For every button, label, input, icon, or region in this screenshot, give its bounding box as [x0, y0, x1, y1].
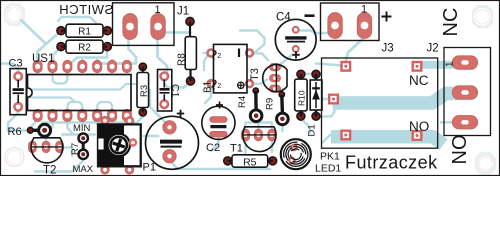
- capacitor C5 pads: [163, 121, 176, 163]
- wire J3 pad2 down to relay NC pad: [346, 37, 365, 60]
- svg-text:T1: T1: [230, 143, 243, 155]
- svg-text:R8: R8: [177, 53, 188, 66]
- svg-text:MIN: MIN: [73, 123, 91, 134]
- wire stubs US1 top pins: [82, 60, 112, 65]
- wire J2 pin3 link: [441, 121, 453, 124]
- wire inside US1 horizontal: [30, 84, 136, 90]
- wire into relay NC-side pad: [316, 64, 343, 66]
- capacitor C5 (big electrolytic): [146, 110, 199, 170]
- capacitor C3: [9, 58, 27, 115]
- wire B1 left stubs: [204, 53, 212, 84]
- wire C2 bottom: [211, 137, 218, 152]
- wire thick trace relay coil to J2 pin2: [333, 94, 459, 104]
- svg-text:R4: R4: [237, 96, 248, 108]
- transistor T1: [230, 127, 276, 155]
- relay PK1 pads: [329, 62, 421, 140]
- wire J1 pad2 down: [158, 38, 168, 78]
- wire B1 to below: [205, 86, 211, 104]
- wire R8 bottom to C1: [164, 81, 190, 88]
- svg-text:C1: C1: [169, 84, 181, 98]
- wire US1 bottom pin3-4 loop: [67, 102, 82, 117]
- svg-text:J3: J3: [382, 43, 394, 55]
- wire US1 pin to R7 area: [67, 125, 73, 135]
- wire B1 right to T3: [250, 53, 268, 84]
- connector J2: [427, 43, 491, 136]
- svg-text:R9: R9: [265, 98, 276, 110]
- wire R3/C1 area to C5 top pad: [150, 90, 168, 125]
- svg-text:Futrzaczek: Futrzaczek: [345, 152, 438, 172]
- connector J2 pads: [452, 56, 478, 129]
- svg-text:PK1: PK1: [320, 151, 340, 163]
- wire T3 stubs: [275, 67, 284, 89]
- wire US1 pin to R6: [30, 119, 37, 128]
- LED1: [279, 138, 341, 175]
- svg-text:R1: R1: [78, 26, 91, 37]
- svg-text:SWITCH: SWITCH: [59, 2, 114, 17]
- svg-text:C4: C4: [276, 12, 291, 24]
- wire inside US1 horizontal 2: [30, 98, 75, 103]
- wire D1 to relay coil: [317, 103, 335, 116]
- capacitor C1 pads: [160, 72, 169, 109]
- relay PK1 outline: [322, 58, 438, 148]
- transistor T2: [31, 138, 63, 177]
- mounting hole top-right: [473, 6, 492, 27]
- IC US1: [28, 53, 132, 111]
- wire R10 to LED area: [301, 119, 310, 134]
- potentiometer P1: [98, 124, 156, 174]
- svg-text:D1: D1: [307, 124, 318, 136]
- svg-text:1: 1: [154, 4, 160, 16]
- wire stubs US1 bottom pins: [53, 118, 113, 128]
- wire R9 bottom down: [281, 125, 283, 131]
- bridge rectifier B1: [203, 44, 248, 93]
- bridge B1 pads: [207, 49, 254, 88]
- wire R2 to US1 pin2: [53, 47, 61, 65]
- svg-text:R6: R6: [8, 126, 22, 138]
- wire under SWITCH text: [58, 17, 96, 23]
- wire US1 pin2-pin3 loop: [53, 64, 68, 84]
- resistor R9: [265, 92, 289, 125]
- wire P1 to C5: [144, 135, 158, 138]
- capacitor C2 pads: [210, 117, 227, 137]
- svg-text:T3: T3: [249, 68, 261, 81]
- wire stub into relay coil pad: [322, 98, 330, 101]
- svg-text:R7: R7: [70, 143, 81, 155]
- wire to B1 top right pad: [240, 31, 265, 53]
- wire R2 right to US1 pin3: [70, 47, 107, 64]
- svg-text:MAX: MAX: [73, 164, 94, 175]
- wire J1 to R8 area: [166, 31, 190, 34]
- wire along bottom to R7: [35, 161, 83, 172]
- wire J1 pad1 down: [129, 38, 137, 63]
- trimmer R7 with MIN/MAX: [70, 123, 94, 175]
- svg-text:1: 1: [445, 61, 456, 67]
- svg-text:R10: R10: [297, 90, 307, 106]
- mounting hole bottom-right: [476, 153, 495, 174]
- wire above MIN: [62, 133, 95, 135]
- wire from hole to R1/US1 pin1: [21, 20, 61, 64]
- svg-text:C2: C2: [206, 142, 220, 154]
- svg-text:2: 2: [217, 83, 221, 90]
- wire C4 bottom to T3: [278, 55, 292, 66]
- diode D1: [307, 70, 323, 136]
- wire US1 bottom pin5-6 loop: [97, 102, 112, 117]
- capacitor C1: [158, 70, 182, 112]
- board outline: [1, 1, 500, 176]
- transistor T3: [249, 65, 287, 92]
- svg-text:T2: T2: [43, 165, 56, 177]
- svg-text:2: 2: [217, 53, 221, 60]
- svg-text:J2: J2: [427, 43, 439, 55]
- transistor T2 pads: [29, 141, 64, 152]
- svg-text:US1: US1: [32, 53, 54, 65]
- connector J1 pads: [123, 14, 166, 40]
- resistor R8: [177, 17, 197, 85]
- svg-text:R2: R2: [78, 42, 91, 53]
- wire T1 pins down: [246, 141, 272, 153]
- mounting hole bottom-left: [5, 148, 24, 167]
- wire above US1 right pins: [99, 62, 136, 65]
- wire to B1 pad1: [204, 55, 208, 70]
- svg-text:NO: NO: [449, 135, 471, 165]
- svg-text:NC: NC: [440, 8, 462, 37]
- wire US1 to R3 bottom: [42, 117, 143, 123]
- US1 DIP-14 pads: [33, 60, 132, 121]
- wire left edge to C3: [2, 64, 18, 75]
- potentiometer P1 pads: [101, 116, 134, 174]
- svg-text:R5: R5: [243, 156, 257, 168]
- connector J3: [321, 3, 394, 55]
- capacitor C4 pads: [292, 26, 299, 52]
- wire relay NO pad to LED area: [322, 135, 344, 143]
- svg-text:NC: NC: [409, 73, 429, 88]
- resistor R2: [57, 40, 112, 53]
- resistor R6: [8, 124, 51, 138]
- wire T1 pins up: [246, 123, 272, 130]
- capacitor C2: [202, 102, 235, 155]
- svg-text:J1: J1: [177, 6, 189, 18]
- resistor R3: [137, 63, 150, 116]
- transistor T1 pads: [241, 129, 276, 141]
- resistor R4: [237, 88, 262, 121]
- resistor R5: [224, 155, 277, 169]
- resistor R10: [295, 70, 307, 120]
- svg-text:LED1: LED1: [315, 163, 341, 175]
- transistor T3 pads: [270, 63, 281, 92]
- wire thick NO trace to J2 pin3 and corner: [331, 137, 444, 145]
- wire C4 to J3 pad1: [297, 28, 335, 34]
- wire C3 to R6: [8, 107, 28, 131]
- wire US1 pin to T2: [46, 127, 53, 140]
- wire T2 to MAX area: [62, 148, 72, 157]
- connector J3 pads: [328, 13, 372, 39]
- LED1 pads: [289, 144, 298, 164]
- wire NC thick trace to J2 pin1: [420, 61, 457, 69]
- connector J1: [113, 3, 190, 46]
- svg-text:1: 1: [361, 4, 367, 16]
- svg-text:NO: NO: [409, 119, 429, 134]
- resistor R1: [57, 24, 112, 37]
- svg-text:C3: C3: [9, 58, 23, 70]
- wire C5 bottom along board bottom: [171, 155, 270, 169]
- capacitor C4: [275, 12, 316, 61]
- mounting hole top-left: [5, 4, 24, 25]
- svg-text:R3: R3: [139, 85, 150, 97]
- capacitor C3 pads: [14, 72, 23, 112]
- svg-text:B1: B1: [203, 80, 214, 93]
- wire R10 to D1 top: [301, 73, 316, 76]
